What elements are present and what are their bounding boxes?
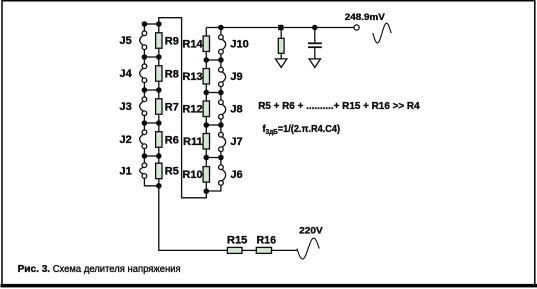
svg-text:J7: J7 bbox=[230, 136, 242, 148]
svg-text:J9: J9 bbox=[230, 71, 242, 83]
svg-text:R6: R6 bbox=[165, 134, 179, 146]
svg-text:J4: J4 bbox=[120, 68, 133, 80]
svg-text:J6: J6 bbox=[230, 169, 242, 181]
svg-text:Рис. 3. Схема делителя напряже: Рис. 3. Схема делителя напряжения bbox=[18, 264, 181, 275]
svg-text:J8: J8 bbox=[230, 103, 242, 115]
svg-text:R5 + R6 + ..........+ R15 + R: R5 + R6 + ..........+ R15 + R16 >> R4 bbox=[258, 100, 420, 112]
svg-text:J2: J2 bbox=[120, 134, 132, 146]
svg-text:248.9mV: 248.9mV bbox=[345, 12, 385, 22]
svg-text:R11: R11 bbox=[183, 136, 203, 148]
svg-text:R7: R7 bbox=[165, 101, 179, 113]
svg-text:R5: R5 bbox=[165, 166, 179, 178]
svg-text:R16: R16 bbox=[257, 234, 277, 246]
svg-text:J1: J1 bbox=[120, 166, 132, 178]
svg-text:R9: R9 bbox=[165, 35, 179, 47]
svg-text:J10: J10 bbox=[230, 38, 248, 50]
svg-text:R14: R14 bbox=[182, 39, 203, 51]
svg-text:R15: R15 bbox=[227, 234, 248, 246]
svg-text:J3: J3 bbox=[120, 101, 132, 113]
svg-text:R12: R12 bbox=[182, 104, 202, 116]
svg-text:220V: 220V bbox=[299, 226, 323, 237]
svg-text:R8: R8 bbox=[165, 68, 179, 80]
svg-text:R10: R10 bbox=[182, 169, 202, 181]
svg-text:J5: J5 bbox=[120, 35, 132, 47]
svg-text:R13: R13 bbox=[182, 71, 202, 83]
